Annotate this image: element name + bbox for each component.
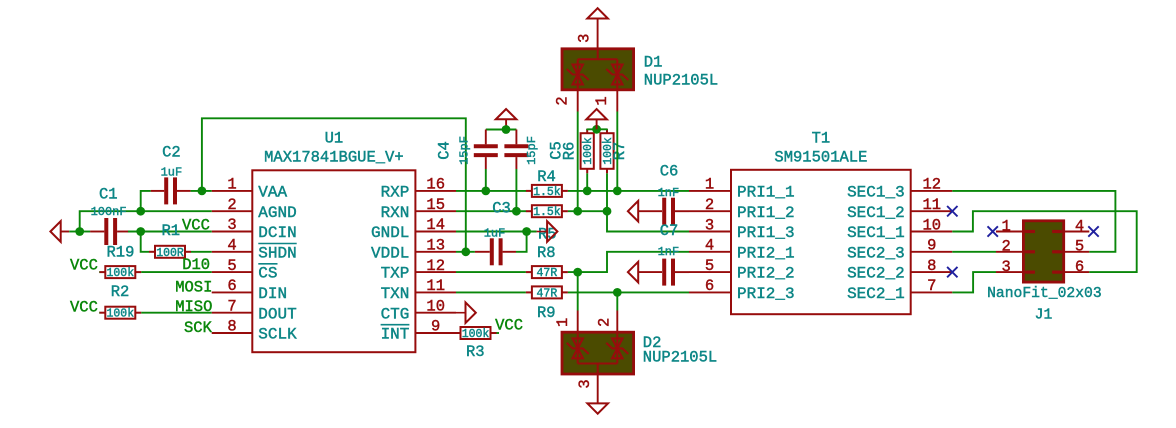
svg-text:10: 10	[922, 216, 941, 234]
svg-text:47R: 47R	[537, 267, 558, 280]
svg-text:5: 5	[705, 257, 714, 275]
svg-text:11: 11	[426, 277, 445, 295]
svg-text:TXP: TXP	[381, 265, 410, 283]
svg-text:1nF: 1nF	[658, 245, 680, 259]
svg-text:1: 1	[705, 176, 714, 194]
svg-text:PRI1_3: PRI1_3	[737, 224, 795, 242]
svg-text:7: 7	[927, 277, 936, 295]
svg-text:R8: R8	[537, 244, 556, 262]
svg-text:GNDL: GNDL	[371, 224, 409, 242]
svg-text:R19: R19	[107, 244, 135, 262]
svg-text:15pF: 15pF	[457, 136, 471, 165]
svg-text:1: 1	[554, 318, 572, 327]
svg-text:15pF: 15pF	[525, 136, 539, 165]
svg-text:9: 9	[927, 237, 936, 255]
svg-text:11: 11	[922, 196, 941, 214]
svg-text:R9: R9	[537, 304, 556, 322]
svg-text:12: 12	[426, 257, 445, 275]
svg-text:100R: 100R	[156, 247, 184, 260]
svg-text:D10: D10	[182, 256, 210, 274]
svg-text:1uF: 1uF	[484, 227, 506, 241]
svg-text:MOSI: MOSI	[175, 278, 212, 296]
svg-text:INT: INT	[381, 326, 410, 344]
svg-text:47R: 47R	[537, 287, 558, 300]
svg-text:PRI1_1: PRI1_1	[737, 184, 795, 202]
svg-text:8: 8	[227, 318, 236, 336]
svg-text:100k: 100k	[582, 137, 595, 165]
svg-text:NUP2105L: NUP2105L	[644, 72, 718, 90]
svg-text:15: 15	[426, 196, 445, 214]
svg-text:SEC1_1: SEC1_1	[847, 224, 905, 242]
svg-text:AGND: AGND	[258, 204, 296, 222]
svg-text:DCIN: DCIN	[258, 224, 296, 242]
svg-text:RXP: RXP	[381, 184, 410, 202]
svg-text:6: 6	[227, 277, 236, 295]
svg-text:SM91501ALE: SM91501ALE	[774, 148, 867, 166]
svg-text:100k: 100k	[106, 308, 134, 321]
svg-text:1: 1	[227, 176, 236, 194]
svg-text:DIN: DIN	[258, 285, 287, 303]
svg-text:MAX17841BGUE_V+: MAX17841BGUE_V+	[264, 148, 404, 166]
svg-text:PRI1_2: PRI1_2	[737, 204, 795, 222]
svg-text:PRI2_2: PRI2_2	[737, 265, 795, 283]
svg-text:C4: C4	[436, 141, 454, 160]
svg-text:2: 2	[227, 196, 236, 214]
svg-text:SCLK: SCLK	[258, 326, 297, 344]
svg-text:14: 14	[426, 216, 445, 234]
svg-text:10: 10	[426, 297, 445, 315]
svg-text:8: 8	[927, 257, 936, 275]
svg-text:VCC: VCC	[495, 317, 523, 335]
svg-text:D1: D1	[644, 54, 663, 72]
svg-text:3: 3	[705, 216, 714, 234]
svg-text:VAA: VAA	[258, 184, 287, 202]
svg-text:C2: C2	[162, 144, 181, 162]
svg-text:DOUT: DOUT	[258, 305, 296, 323]
svg-text:TXN: TXN	[381, 285, 410, 303]
svg-text:13: 13	[426, 237, 445, 255]
svg-text:1nF: 1nF	[658, 186, 680, 200]
svg-text:SEC1_2: SEC1_2	[847, 204, 905, 222]
svg-text:6: 6	[1075, 258, 1084, 276]
svg-text:C7: C7	[660, 222, 679, 240]
svg-text:PRI2_1: PRI2_1	[737, 244, 795, 262]
svg-text:R7: R7	[611, 142, 629, 161]
svg-text:9: 9	[431, 318, 440, 336]
svg-text:100nF: 100nF	[91, 205, 127, 219]
svg-text:T1: T1	[812, 129, 831, 147]
svg-text:2: 2	[554, 96, 572, 105]
svg-text:4: 4	[1075, 217, 1084, 235]
svg-text:SEC1_3: SEC1_3	[847, 184, 905, 202]
svg-text:VCC: VCC	[182, 216, 210, 234]
svg-text:7: 7	[227, 297, 236, 315]
svg-text:4: 4	[705, 237, 714, 255]
svg-text:5: 5	[227, 257, 236, 275]
svg-text:3: 3	[576, 379, 594, 388]
svg-text:12: 12	[922, 176, 941, 194]
svg-text:SEC2_3: SEC2_3	[847, 244, 905, 262]
svg-text:U1: U1	[325, 129, 344, 147]
svg-text:C3: C3	[492, 200, 511, 218]
svg-text:100k: 100k	[462, 328, 490, 341]
svg-text:SEC2_1: SEC2_1	[847, 285, 905, 303]
svg-text:R4: R4	[537, 168, 556, 186]
svg-text:3: 3	[227, 216, 236, 234]
svg-text:VCC: VCC	[70, 298, 98, 316]
svg-text:SCK: SCK	[184, 319, 213, 337]
svg-text:SHDN: SHDN	[258, 244, 296, 262]
svg-text:CS: CS	[258, 265, 277, 283]
svg-text:RXN: RXN	[381, 204, 410, 222]
svg-text:2: 2	[705, 196, 714, 214]
svg-text:MISO: MISO	[175, 298, 212, 316]
svg-text:CTG: CTG	[381, 305, 410, 323]
svg-text:2: 2	[1002, 238, 1011, 256]
svg-text:100k: 100k	[106, 267, 134, 280]
svg-text:R6: R6	[561, 142, 579, 161]
svg-text:NUP2105L: NUP2105L	[643, 349, 717, 367]
svg-text:NanoFit_02x03: NanoFit_02x03	[987, 286, 1102, 302]
svg-text:R3: R3	[466, 343, 485, 361]
svg-text:PRI2_3: PRI2_3	[737, 285, 795, 303]
svg-text:16: 16	[426, 176, 445, 194]
svg-text:1uF: 1uF	[161, 166, 183, 180]
svg-text:VCC: VCC	[70, 257, 98, 275]
svg-text:4: 4	[227, 237, 236, 255]
svg-text:2: 2	[596, 318, 614, 327]
svg-text:R2: R2	[111, 283, 130, 301]
svg-text:3: 3	[576, 34, 594, 43]
svg-text:SEC2_2: SEC2_2	[847, 265, 905, 283]
svg-text:1: 1	[593, 96, 611, 105]
svg-text:1.5k: 1.5k	[533, 186, 561, 199]
svg-text:1.5k: 1.5k	[533, 206, 561, 219]
svg-text:J1: J1	[1035, 308, 1053, 324]
svg-text:1: 1	[1002, 217, 1011, 235]
svg-text:5: 5	[1075, 238, 1084, 256]
svg-text:3: 3	[1002, 258, 1011, 276]
svg-text:6: 6	[705, 277, 714, 295]
svg-text:R1: R1	[162, 222, 181, 240]
svg-text:C6: C6	[660, 162, 679, 180]
svg-text:C1: C1	[99, 185, 118, 203]
svg-text:VDDL: VDDL	[371, 244, 409, 262]
